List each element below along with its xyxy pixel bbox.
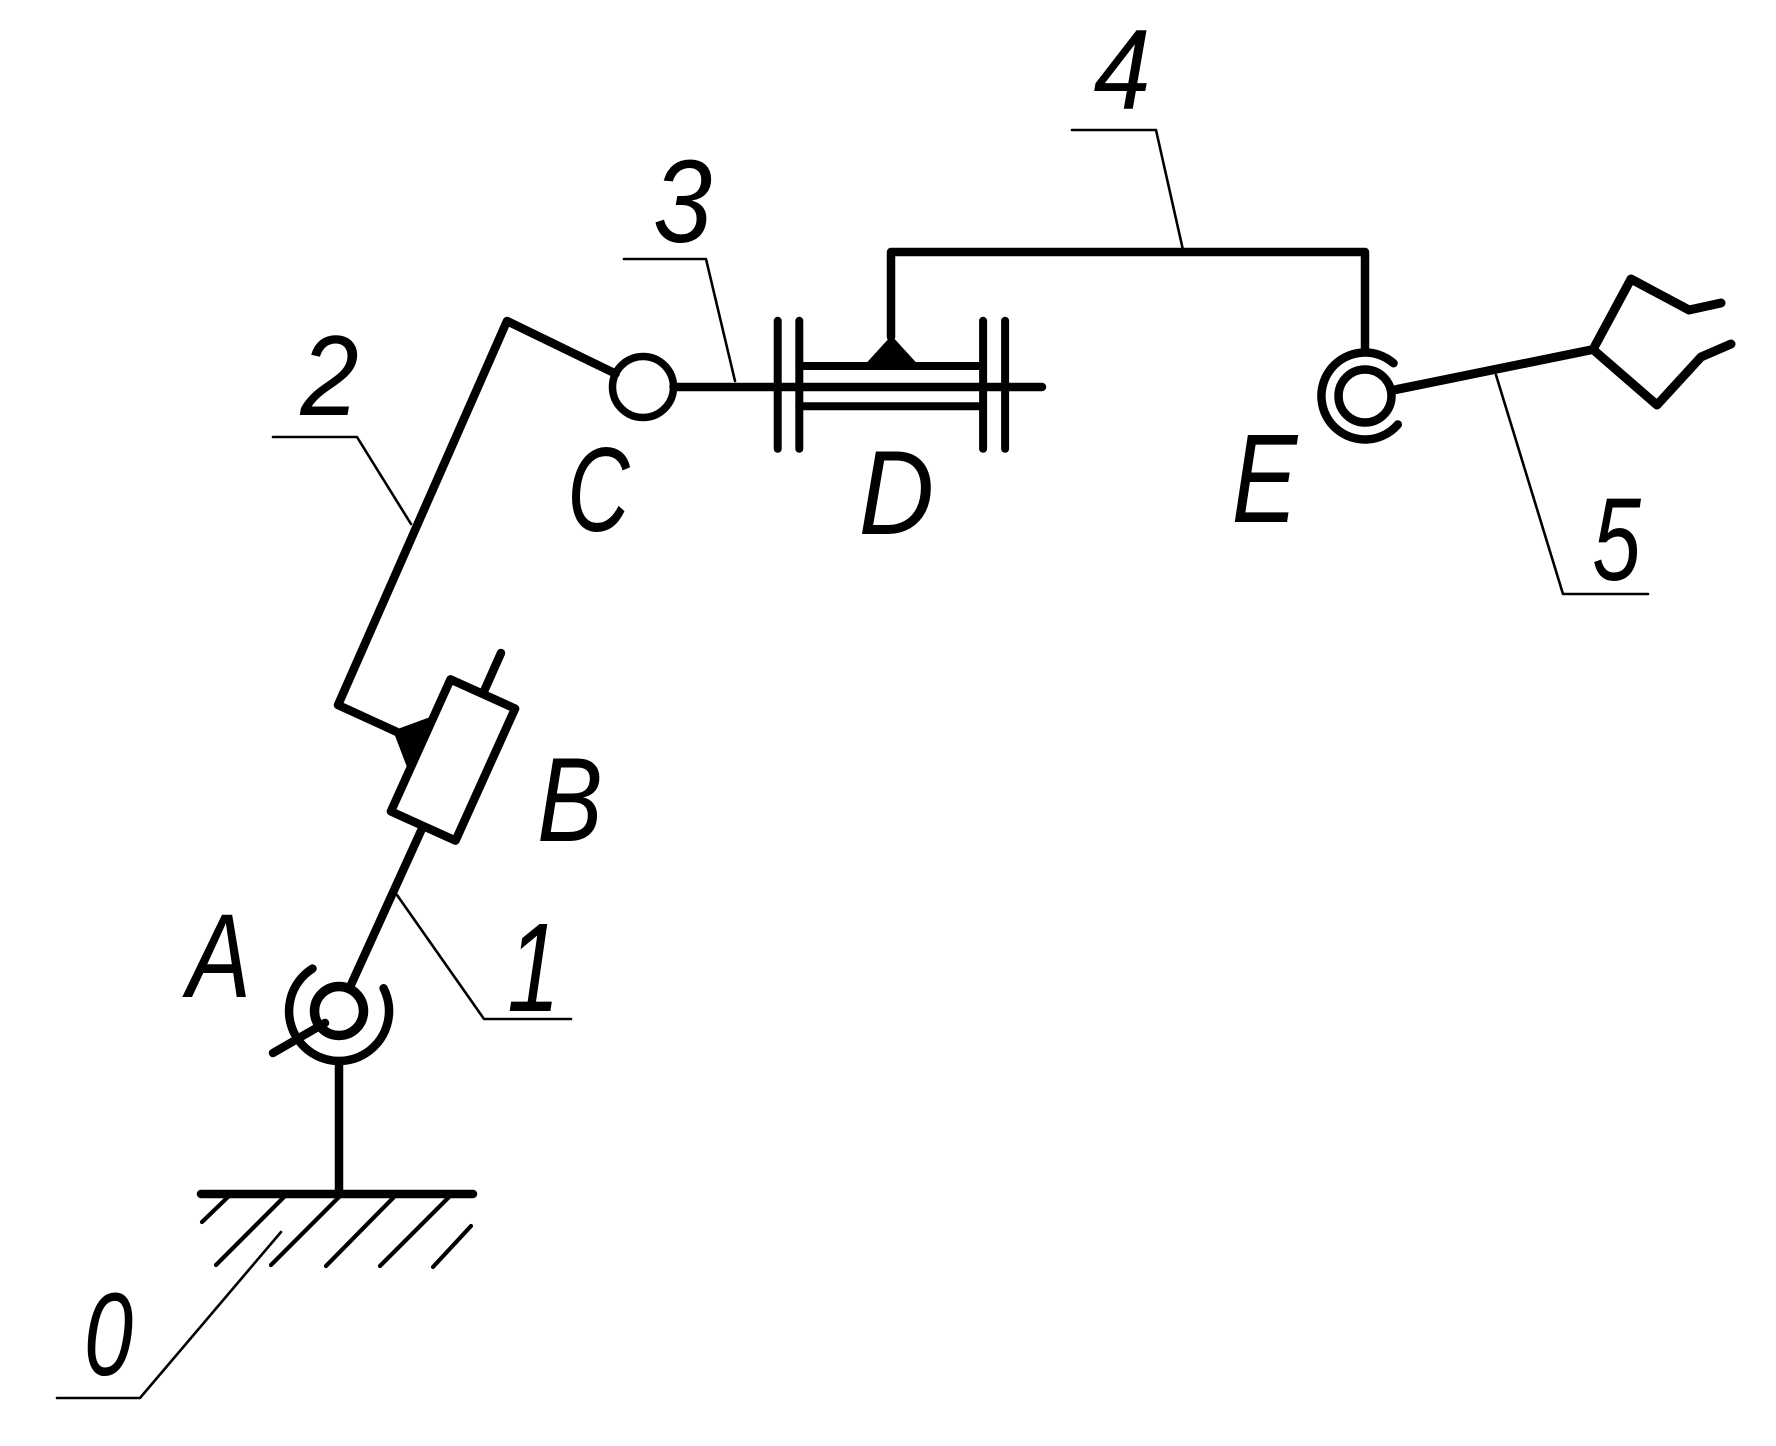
link 1 rod stub above slider B bbox=[483, 653, 501, 694]
joint E inner circle bbox=[1339, 370, 1392, 423]
link 4 polyline D to E bbox=[891, 252, 1365, 352]
link 5 bbox=[1392, 350, 1594, 391]
ground link 0 baseline bbox=[201, 1190, 473, 1199]
joint D sleeve top bbox=[799, 362, 983, 370]
gripper upper jaw bbox=[1593, 279, 1721, 350]
weld triangle at D bbox=[865, 337, 918, 366]
joint D outer right flange bbox=[1001, 321, 1009, 449]
leader for label 4 bbox=[1072, 130, 1183, 250]
joint D inner right flange bbox=[979, 321, 987, 449]
joint E outer arc bbox=[1321, 353, 1397, 440]
leader for label 3 bbox=[624, 259, 735, 381]
svg-text:0: 0 bbox=[84, 1270, 133, 1401]
ground hatching bbox=[202, 1196, 471, 1267]
svg-text:E: E bbox=[1232, 408, 1299, 549]
leader for label 0 bbox=[57, 1232, 281, 1398]
weld triangle at B bbox=[395, 717, 435, 770]
svg-text:4: 4 bbox=[1093, 6, 1150, 133]
leader for label 2 bbox=[273, 437, 411, 524]
joint D inner left flange bbox=[795, 321, 803, 449]
joint D outer left flange bbox=[774, 321, 782, 449]
link 1 rod lower segment A to slider B bbox=[350, 826, 423, 987]
svg-text:B: B bbox=[537, 734, 603, 867]
joint A outer arc bbox=[289, 969, 389, 1061]
joint D sleeve bottom bbox=[799, 402, 983, 410]
svg-text:A: A bbox=[182, 890, 251, 1024]
joint C circle bbox=[613, 357, 674, 418]
link 2 polyline C to B bbox=[338, 321, 616, 732]
svg-text:3: 3 bbox=[653, 135, 712, 267]
ground post (frame to joint A) bbox=[335, 1061, 344, 1194]
svg-text:5: 5 bbox=[1592, 473, 1641, 605]
svg-text:D: D bbox=[859, 425, 934, 559]
svg-text:1: 1 bbox=[507, 897, 560, 1038]
joint A axis stub bbox=[273, 1023, 325, 1053]
slider block B bbox=[391, 679, 515, 840]
leader for label 1 bbox=[397, 895, 571, 1019]
leader for label 5 bbox=[1496, 375, 1648, 594]
link 3 shaft bbox=[674, 383, 1043, 392]
gripper lower jaw bbox=[1593, 344, 1731, 405]
svg-text:C: C bbox=[567, 423, 631, 557]
joint A inner circle bbox=[315, 987, 364, 1036]
svg-text:2: 2 bbox=[299, 313, 358, 440]
